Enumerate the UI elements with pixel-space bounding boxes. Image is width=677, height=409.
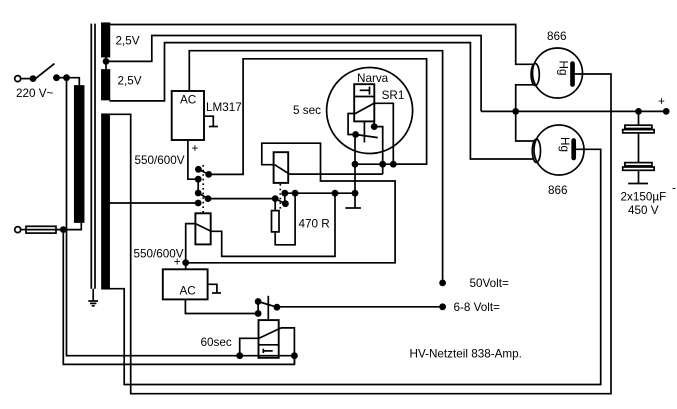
svg-text:60sec: 60sec (201, 336, 232, 349)
svg-text:50Volt=: 50Volt= (470, 277, 509, 290)
tube V1 circle (533, 48, 583, 98)
regulator U1 box (172, 91, 204, 140)
SR1 linkage tick (363, 121, 365, 142)
svg-text:450 V: 450 V (628, 204, 659, 217)
K3 blade (259, 328, 282, 339)
wire filament line2 to plus rail (106, 36, 481, 112)
wire mains B down (63, 230, 294, 365)
SR1 lower blade (356, 135, 378, 138)
tube V2 circle (534, 125, 584, 175)
svg-text:2x150µF: 2x150µF (621, 190, 667, 203)
node S3 right (282, 200, 289, 207)
svg-text:866: 866 (547, 30, 567, 43)
svg-text:-: - (672, 181, 676, 194)
wire U2 out to S4 (185, 299, 258, 313)
winding 2,5V no.2 (102, 70, 110, 100)
node 50V terminal (439, 280, 446, 287)
node filament windings junction (103, 58, 110, 65)
wire resistor bottom loop (275, 193, 295, 245)
relay K1 blade (195, 224, 211, 232)
wire rail to V2 filament top (516, 111, 534, 141)
SR1 relay box (354, 84, 374, 121)
node B (205, 171, 212, 178)
ground (88, 289, 98, 306)
relay K3 60sec box (259, 320, 279, 358)
svg-text:470 R: 470 R (299, 218, 330, 231)
wire HV center tap (109, 202, 198, 204)
svg-text:AC: AC (180, 285, 196, 298)
node nl3 (332, 190, 339, 197)
svg-text:Hg: Hg (558, 137, 571, 152)
regulator U2 box (163, 269, 208, 299)
node rail filament (512, 108, 519, 115)
node C (195, 176, 202, 183)
svg-text:6-8 Volt=: 6-8 Volt= (454, 301, 501, 314)
node SR1 c (390, 161, 397, 168)
relay K2 blade (275, 165, 290, 174)
node resistor top (272, 195, 279, 202)
wire C to D (197, 179, 199, 193)
wire mains A down to 60sec circuit (67, 78, 68, 356)
svg-text:Hg: Hg (557, 61, 570, 76)
ground bar SR1 (345, 207, 361, 209)
wire resistor top stub (274, 199, 276, 211)
wire filament line1 to top tube (109, 25, 534, 65)
wire HV top to tube1 anode (109, 74, 611, 394)
K3 divider (259, 344, 279, 346)
node D (195, 190, 202, 197)
plus rail (481, 110, 666, 112)
svg-text:Narva: Narva (357, 72, 389, 85)
capacitor C1 (623, 111, 654, 133)
wire K1 right to node line (211, 193, 335, 256)
node SR1 a (352, 161, 359, 168)
wire SR1 upper contact (374, 103, 393, 164)
relay K2 box (274, 152, 289, 183)
wire K2 left feed (186, 143, 395, 263)
node S1 contact (53, 74, 60, 81)
svg-text:SR1: SR1 (382, 89, 405, 102)
node K3 right (291, 352, 298, 359)
svg-text:550/600V: 550/600V (135, 154, 185, 167)
node nl1 (281, 190, 288, 197)
tube V1 anode bar (570, 64, 575, 85)
svg-text:+: + (192, 142, 199, 155)
node F (195, 200, 202, 207)
wire K1 left to AC2 plus (186, 224, 196, 263)
wire U1 out to contact C (188, 140, 198, 179)
node SR1 coil terminal (371, 123, 378, 130)
blade A-B (198, 169, 208, 174)
svg-text:+: + (174, 255, 181, 268)
node S4 out (255, 310, 262, 317)
K3 coil symbol (263, 349, 272, 353)
svg-text:5 sec: 5 sec (293, 104, 321, 117)
svg-text:866: 866 (548, 184, 568, 197)
svg-text:AC: AC (180, 94, 196, 107)
svg-text:LM317: LM317 (206, 101, 242, 114)
transformer core (91, 24, 95, 289)
svg-text:2,5V: 2,5V (116, 34, 140, 47)
switch S3 blade (275, 199, 285, 204)
node fuse junction (60, 226, 67, 233)
wire V1 filament bottom to rail (516, 85, 534, 112)
SR1 envelope circle (327, 68, 413, 154)
wire HV bottom to tube2 anode (109, 149, 601, 384)
svg-text:220 V~: 220 V~ (16, 87, 54, 100)
node S4 left (255, 298, 262, 305)
node nl4 (352, 190, 359, 197)
terminal 220V neutral (15, 227, 21, 233)
node rail terminal (663, 108, 670, 115)
SR1 contact diagonal (354, 103, 374, 114)
linkage main contacts (202, 165, 204, 213)
node mains junction (63, 74, 70, 81)
wire mains A horizontal (67, 355, 295, 357)
wire B to SR1 loop (209, 59, 427, 175)
capacitor C2 (623, 133, 654, 184)
wire U1 top to 50V line (189, 51, 442, 283)
blade D-E (198, 193, 208, 199)
wire filament line3 to bottom tube (109, 43, 534, 159)
wire switch to primary (57, 78, 80, 86)
node K3 left (236, 352, 243, 359)
node rail cap (635, 108, 642, 115)
wire K3 left contact (240, 338, 259, 355)
adj pin symbol U1 (204, 116, 218, 126)
wire K2 blade to SR1 coil (290, 173, 383, 175)
wire fuse to primary bottom (56, 222, 81, 230)
main contacts: node A (195, 166, 202, 173)
node SR1 b (379, 161, 386, 168)
wire SR1 node line (355, 163, 427, 165)
node 6-8V terminal (439, 303, 446, 310)
svg-text:2,5V: 2,5V (118, 75, 142, 88)
wire K3 right contact (281, 328, 294, 365)
winding HV 550/600V (102, 114, 109, 288)
tube V1 filament (531, 64, 539, 86)
wire AC2 top stub (185, 263, 187, 270)
wire E to resistor node (208, 198, 275, 200)
wire 6-8V output (277, 306, 443, 308)
switch S1 blade (35, 64, 55, 80)
S4 linkage tick (267, 296, 269, 320)
wire SR1 coil to node (374, 121, 383, 174)
winding junction stub (105, 57, 107, 70)
node S4 right (274, 304, 281, 311)
node SR1 pivot (352, 131, 359, 138)
transformer primary winding (75, 86, 84, 222)
terminal 220V live (15, 75, 37, 82)
node nl2 (292, 190, 299, 197)
svg-text:HV-Netzteil 838-Amp.: HV-Netzteil 838-Amp. (410, 348, 522, 361)
node E (205, 195, 212, 202)
linkage S3 (279, 184, 281, 209)
SR1 divider (354, 96, 374, 98)
winding 2,5V no.1 (102, 23, 110, 56)
adj pin symbol U2 (208, 284, 221, 293)
wire S3 up to node line (284, 193, 286, 204)
tube V2 filament (532, 139, 540, 162)
wire SR1 pivot down (354, 135, 356, 209)
svg-text:+: + (658, 95, 665, 108)
resistor R1 (272, 211, 280, 232)
relay K1 box (195, 213, 210, 244)
switch S4 blade (258, 302, 277, 308)
wire node line y193 (285, 192, 355, 194)
SR1 coil symbol (360, 87, 370, 95)
tube V2 anode bar (571, 141, 576, 159)
fuse F1 (21, 226, 56, 233)
node AC2 plus (182, 259, 189, 266)
wire SR1 left bracket (348, 114, 356, 135)
